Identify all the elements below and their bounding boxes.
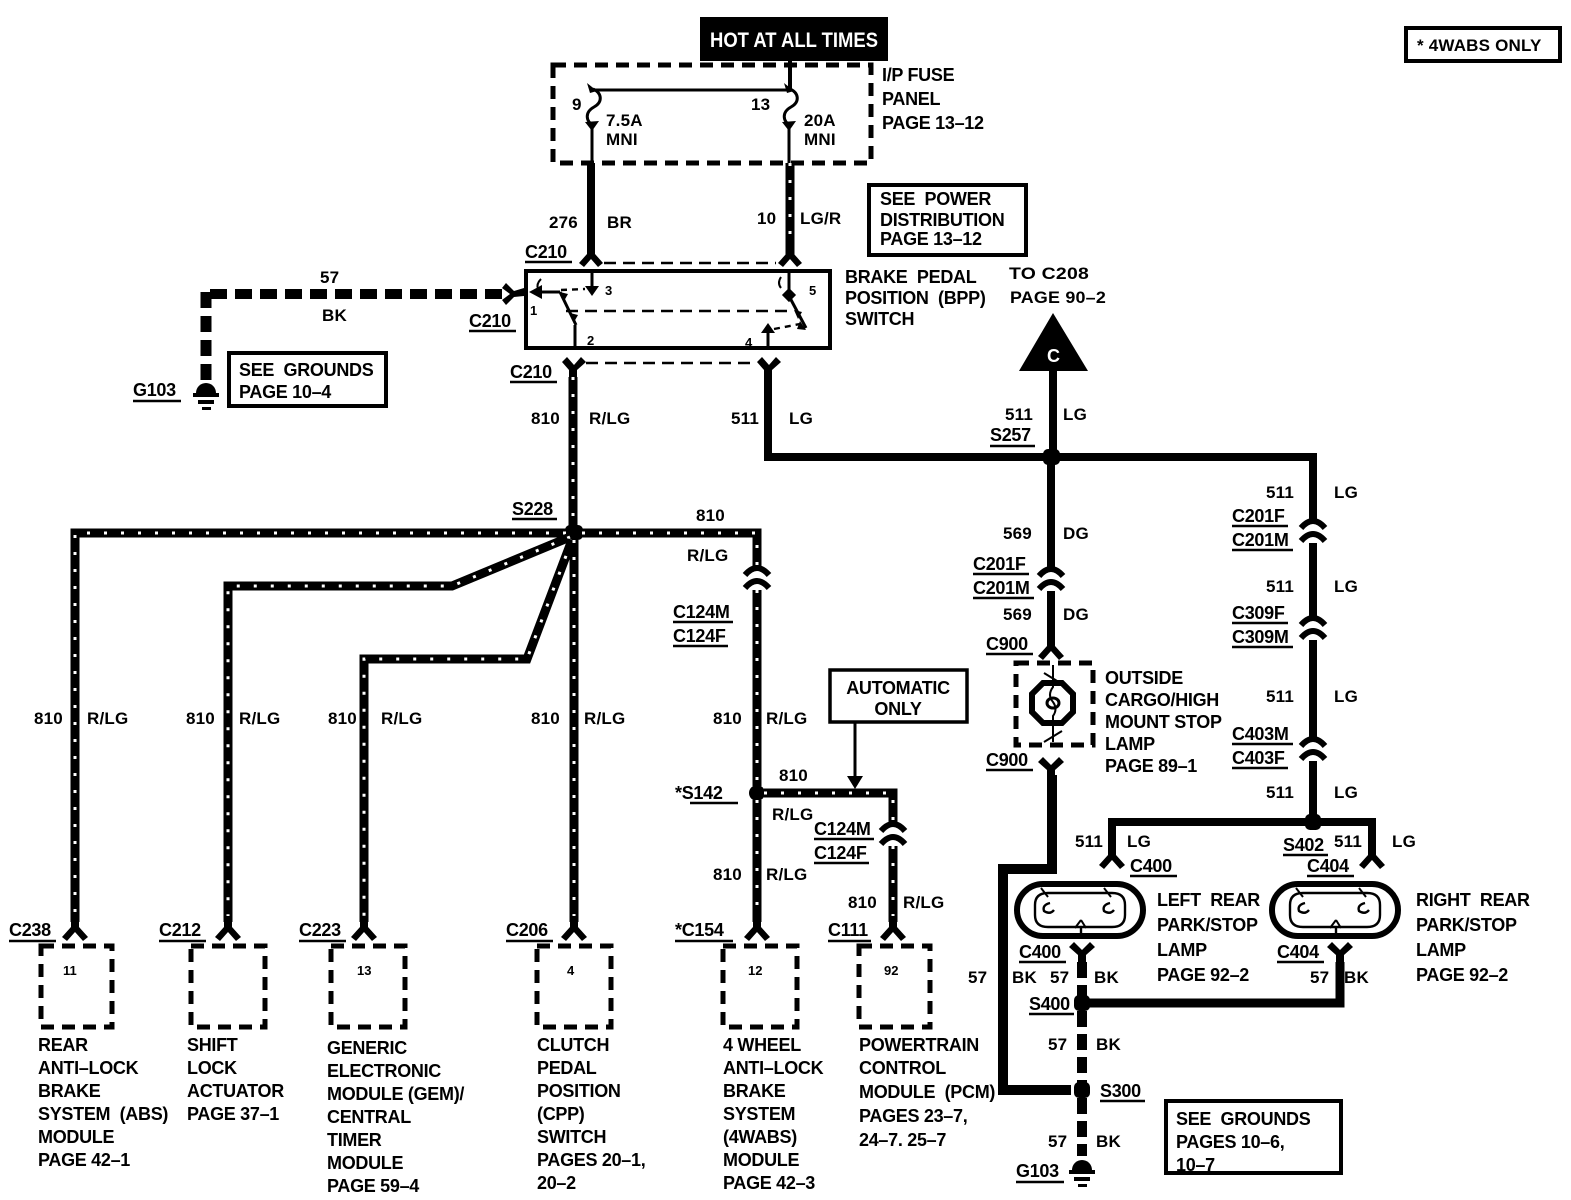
svg-text:PAGE 10–4: PAGE 10–4	[239, 382, 331, 402]
svg-text:MODULE (PCM): MODULE (PCM)	[859, 1082, 995, 1102]
connector C154	[675, 916, 797, 1027]
svg-text:MODULE (GEM)/: MODULE (GEM)/	[327, 1084, 464, 1104]
svg-text:SWITCH: SWITCH	[537, 1127, 606, 1147]
svg-text:511: 511	[1005, 405, 1033, 424]
svg-text:G103: G103	[133, 380, 176, 400]
svg-text:20A: 20A	[804, 111, 836, 130]
svg-text:MOUNT STOP: MOUNT STOP	[1105, 712, 1222, 732]
connector C400 bottom	[1019, 942, 1095, 962]
svg-text:810: 810	[531, 709, 560, 728]
svg-text:810: 810	[713, 709, 742, 728]
svg-text:810: 810	[848, 893, 877, 912]
connector C210 label bottom	[510, 362, 557, 382]
wire 57 BK S400 to S300	[1048, 1011, 1121, 1084]
svg-text:C201F: C201F	[973, 554, 1026, 574]
svg-text:LG: LG	[1334, 483, 1358, 502]
svg-text:569: 569	[1003, 524, 1032, 543]
ground G103 left	[133, 380, 219, 410]
I/P fuse panel label	[882, 65, 984, 133]
connector C124M/C124F upper	[673, 568, 769, 646]
svg-text:R/LG: R/LG	[687, 546, 728, 565]
module text GEM	[327, 1038, 464, 1196]
svg-text:810: 810	[34, 709, 63, 728]
connector C309F/C309M	[1232, 603, 1325, 647]
splice S228	[512, 499, 583, 540]
BPP contact 5	[789, 296, 806, 330]
svg-text:92: 92	[884, 963, 898, 978]
svg-text:57: 57	[1048, 1132, 1067, 1151]
splice S257	[990, 425, 1060, 465]
svg-text:PEDAL: PEDAL	[537, 1058, 597, 1078]
splice S400	[1029, 994, 1090, 1014]
svg-text:C201M: C201M	[973, 578, 1030, 598]
svg-text:57: 57	[1050, 968, 1069, 987]
svg-text:RIGHT REAR: RIGHT REAR	[1416, 890, 1530, 910]
connector C210 pin1 half-arrow left	[502, 283, 524, 305]
svg-text:REAR: REAR	[38, 1035, 88, 1055]
svg-text:R/LG: R/LG	[584, 709, 625, 728]
svg-text:R/LG: R/LG	[87, 709, 128, 728]
module text shift lock actuator	[187, 1035, 284, 1124]
connector C900 top	[986, 634, 1064, 660]
svg-text:C403F: C403F	[1232, 748, 1285, 768]
svg-text:(4WABS): (4WABS)	[723, 1127, 797, 1147]
wire 57 BK right lamp to S400	[1082, 962, 1340, 1003]
svg-text:R/LG: R/LG	[589, 409, 630, 428]
connector C210 label top	[525, 242, 572, 262]
fuse F13 20A MNI	[751, 83, 836, 163]
labels 57 BK row	[968, 968, 1369, 987]
svg-text:24–7. 25–7: 24–7. 25–7	[859, 1130, 946, 1150]
svg-text:TIMER: TIMER	[327, 1130, 382, 1150]
svg-text:C404: C404	[1277, 942, 1319, 962]
svg-text:4: 4	[567, 963, 575, 978]
svg-text:57: 57	[1310, 968, 1329, 987]
wire 276 BR	[549, 163, 632, 258]
see grounds page 10-4 box	[229, 353, 386, 406]
svg-text:4: 4	[745, 335, 753, 350]
svg-text:PAGES 10–6,: PAGES 10–6,	[1176, 1132, 1284, 1152]
svg-text:PARK/STOP: PARK/STOP	[1157, 915, 1258, 935]
svg-text:SEE POWER: SEE POWER	[880, 189, 991, 209]
wire 810 branch right to C124	[582, 506, 757, 566]
connector C210 pin3 half-arrow	[579, 240, 603, 267]
svg-text:C111: C111	[828, 920, 868, 940]
svg-text:57: 57	[1048, 1035, 1067, 1054]
svg-text:LG: LG	[1063, 405, 1087, 424]
wire 57 BK left lamp to S400	[1077, 962, 1087, 1000]
wire 511 to S257	[764, 453, 1317, 461]
svg-text:DG: DG	[1063, 605, 1089, 624]
wire 511 LG from BPP pin4	[731, 377, 813, 461]
svg-text:G103: G103	[1016, 1161, 1059, 1181]
svg-text:S300: S300	[1100, 1081, 1141, 1101]
svg-text:C400: C400	[1019, 942, 1061, 962]
svg-text:C212: C212	[159, 920, 201, 940]
svg-text:LAMP: LAMP	[1416, 940, 1466, 960]
wire fuse bus	[595, 89, 790, 92]
splice S142	[675, 783, 765, 803]
wire drop to C404	[1307, 818, 1385, 876]
connector C201F/C201M left	[973, 554, 1063, 598]
svg-text:C223: C223	[299, 920, 341, 940]
to C208 triangle	[1005, 264, 1106, 457]
brake pedal position switch box	[526, 271, 830, 348]
svg-text:C124F: C124F	[673, 626, 726, 646]
ground G103 bottom	[1016, 1160, 1095, 1187]
svg-text:ONLY: ONLY	[874, 699, 921, 719]
svg-text:PAGE 42–3: PAGE 42–3	[723, 1173, 815, 1193]
connector C403M/C403F	[1232, 724, 1325, 768]
svg-text:LG: LG	[1334, 783, 1358, 802]
svg-text:C124M: C124M	[814, 819, 871, 839]
connector C210 label left	[469, 311, 516, 331]
svg-text:MNI: MNI	[804, 130, 836, 149]
automatic only box	[830, 670, 967, 789]
svg-text:PAGE 89–1: PAGE 89–1	[1105, 756, 1197, 776]
svg-text:511: 511	[731, 409, 759, 428]
BPP dashed actuator link	[566, 310, 788, 313]
svg-text:13: 13	[357, 963, 371, 978]
wire 57 C900 to S300	[1003, 775, 1071, 1090]
svg-text:R/LG: R/LG	[903, 893, 944, 912]
svg-text:569: 569	[1003, 605, 1032, 624]
module text PCM	[859, 1035, 995, 1150]
connector C210 pin5 half-arrow	[778, 240, 802, 267]
module text 4WABS	[723, 1035, 824, 1193]
svg-text:C238: C238	[9, 920, 51, 940]
svg-text:DISTRIBUTION: DISTRIBUTION	[880, 210, 1004, 230]
svg-text:ANTI–LOCK: ANTI–LOCK	[38, 1058, 139, 1078]
svg-text:C124M: C124M	[673, 602, 730, 622]
svg-text:POWERTRAIN: POWERTRAIN	[859, 1035, 979, 1055]
svg-text:S400: S400	[1029, 994, 1070, 1014]
connector C201F/C201M right	[1232, 506, 1325, 550]
svg-text:PARK/STOP: PARK/STOP	[1416, 915, 1517, 935]
svg-text:BR: BR	[607, 213, 632, 232]
svg-text:PAGE 13–12: PAGE 13–12	[880, 229, 982, 249]
wire 810 branch to C223	[328, 540, 572, 922]
connector C212	[159, 916, 265, 1027]
svg-text:C400: C400	[1130, 856, 1172, 876]
svg-text:PAGE 92–2: PAGE 92–2	[1416, 965, 1508, 985]
svg-text:(CPP): (CPP)	[537, 1104, 585, 1124]
svg-text:7.5A: 7.5A	[606, 111, 643, 130]
svg-text:C: C	[1047, 346, 1060, 366]
connector C900 bottom	[986, 750, 1064, 777]
wire 569 DG upper	[1003, 461, 1089, 567]
svg-text:PAGE 59–4: PAGE 59–4	[327, 1176, 419, 1196]
svg-text:2: 2	[587, 333, 594, 348]
svg-text:I/P FUSE: I/P FUSE	[882, 65, 955, 85]
wire feed from hot bus	[788, 59, 792, 90]
svg-text:PAGES 20–1,: PAGES 20–1,	[537, 1150, 645, 1170]
svg-text:LG: LG	[1392, 832, 1416, 851]
wire 511 right column seg4	[1266, 761, 1358, 822]
svg-text:MNI: MNI	[606, 130, 638, 149]
svg-text:1: 1	[530, 303, 537, 318]
connector C210 pin4 Y	[757, 357, 781, 377]
wire 10 LG/R	[757, 163, 841, 258]
BPP pin 1	[529, 279, 560, 318]
hot at all times banner	[700, 17, 888, 61]
svg-text:4 WHEEL: 4 WHEEL	[723, 1035, 801, 1055]
svg-text:CONTROL: CONTROL	[859, 1058, 946, 1078]
connector C210 dashed link bottom	[586, 362, 756, 365]
wire 57 BK dashed to G103	[203, 268, 502, 380]
svg-text:SEE GROUNDS: SEE GROUNDS	[1176, 1109, 1311, 1129]
svg-text:LG: LG	[1127, 832, 1151, 851]
wire 810 R/LG from BPP pin2 to S228	[531, 377, 630, 530]
svg-text:CARGO/HIGH: CARGO/HIGH	[1105, 690, 1219, 710]
wire 57 BK S300 to G103	[1048, 1098, 1121, 1156]
svg-text:MODULE: MODULE	[327, 1153, 403, 1173]
outside cargo lamp label	[1105, 668, 1222, 776]
svg-text:9: 9	[572, 95, 582, 114]
svg-text:C404: C404	[1307, 856, 1349, 876]
svg-text:10–7: 10–7	[1176, 1155, 1215, 1175]
connector C238	[9, 916, 112, 1027]
svg-text:C210: C210	[525, 242, 567, 262]
svg-text:BRAKE: BRAKE	[723, 1081, 786, 1101]
svg-text:SWITCH: SWITCH	[845, 309, 914, 329]
svg-text:511: 511	[1266, 783, 1294, 802]
svg-text:BK: BK	[1094, 968, 1119, 987]
svg-text:MODULE: MODULE	[38, 1127, 114, 1147]
svg-text:R/LG: R/LG	[766, 865, 807, 884]
svg-text:SYSTEM: SYSTEM	[723, 1104, 795, 1124]
svg-text:BK: BK	[1344, 968, 1369, 987]
svg-text:DG: DG	[1063, 524, 1089, 543]
svg-text:276: 276	[549, 213, 578, 232]
svg-text:GENERIC: GENERIC	[327, 1038, 407, 1058]
svg-text:810: 810	[713, 865, 742, 884]
svg-text:MODULE: MODULE	[723, 1150, 799, 1170]
svg-text:CENTRAL: CENTRAL	[327, 1107, 411, 1127]
svg-text:C900: C900	[986, 750, 1028, 770]
svg-text:511: 511	[1266, 687, 1294, 706]
svg-text:3: 3	[605, 283, 612, 298]
svg-text:5: 5	[809, 283, 816, 298]
svg-text:SHIFT: SHIFT	[187, 1035, 238, 1055]
svg-text:10: 10	[757, 209, 776, 228]
svg-text:810: 810	[779, 766, 808, 785]
wire 511 right column seg1	[1266, 453, 1358, 519]
connector C124M/C124F lower	[814, 819, 905, 863]
svg-text:S257: S257	[990, 425, 1031, 445]
svg-text:BK: BK	[1012, 968, 1037, 987]
svg-text:57: 57	[968, 968, 987, 987]
svg-text:PAGE 42–1: PAGE 42–1	[38, 1150, 130, 1170]
svg-text:SEE GROUNDS: SEE GROUNDS	[239, 360, 374, 380]
connector C210 pin2 Y	[562, 357, 586, 377]
svg-text:810: 810	[186, 709, 215, 728]
wire 810 C124 to C111	[848, 846, 944, 922]
svg-text:S402: S402	[1283, 835, 1324, 855]
svg-text:PANEL: PANEL	[882, 89, 940, 109]
svg-text:11: 11	[63, 963, 77, 978]
see grounds pages 10-6 box	[1166, 1101, 1341, 1175]
wire 810 branch to C238	[34, 533, 566, 922]
connector C210 dashed link top	[604, 262, 776, 265]
svg-text:SYSTEM (ABS): SYSTEM (ABS)	[38, 1104, 168, 1124]
svg-text:R/LG: R/LG	[381, 709, 422, 728]
svg-text:TO C208: TO C208	[1009, 264, 1089, 283]
left lamp label	[1157, 890, 1260, 985]
see power distribution box	[869, 185, 1026, 255]
svg-text:POSITION: POSITION	[537, 1081, 621, 1101]
svg-text:511: 511	[1266, 483, 1294, 502]
svg-text:57: 57	[320, 268, 339, 287]
svg-text:LEFT REAR: LEFT REAR	[1157, 890, 1260, 910]
svg-text:ELECTRONIC: ELECTRONIC	[327, 1061, 441, 1081]
BPP contact 1-2	[560, 292, 594, 348]
BPP pin 3	[561, 272, 612, 298]
svg-text:LG: LG	[789, 409, 813, 428]
svg-text:PAGE 90–2: PAGE 90–2	[1010, 288, 1106, 307]
svg-text:810: 810	[328, 709, 357, 728]
svg-text:BRAKE: BRAKE	[38, 1081, 101, 1101]
svg-text:810: 810	[531, 409, 560, 428]
svg-text:C124F: C124F	[814, 843, 867, 863]
svg-text:OUTSIDE: OUTSIDE	[1105, 668, 1183, 688]
wire 511 right column seg2	[1266, 543, 1358, 616]
svg-text:C309M: C309M	[1232, 627, 1289, 647]
splice S300	[1074, 1081, 1145, 1101]
wire 569 DG lower	[1003, 591, 1089, 644]
svg-text:R/LG: R/LG	[239, 709, 280, 728]
svg-text:CLUTCH: CLUTCH	[537, 1035, 609, 1055]
svg-text:C309F: C309F	[1232, 603, 1285, 623]
svg-text:C403M: C403M	[1232, 724, 1289, 744]
svg-text:PAGE 37–1: PAGE 37–1	[187, 1104, 279, 1124]
svg-text:LG: LG	[1334, 687, 1358, 706]
wire 810 S142 right branch	[764, 766, 893, 824]
I/P fuse panel dashed box	[553, 65, 871, 163]
BPP pin 5	[779, 272, 816, 302]
connector C206	[506, 916, 611, 1027]
svg-text:*S142: *S142	[675, 783, 723, 803]
wire 810 S142 to C154	[713, 800, 807, 922]
left rear park/stop lamp	[1017, 884, 1143, 936]
svg-text:LG: LG	[1334, 577, 1358, 596]
outside cargo lamp box	[1016, 663, 1093, 745]
right rear park/stop lamp	[1272, 884, 1398, 936]
svg-text:C900: C900	[986, 634, 1028, 654]
svg-text:ANTI–LOCK: ANTI–LOCK	[723, 1058, 824, 1078]
BPP pin 4	[745, 323, 800, 350]
svg-text:ACTUATOR: ACTUATOR	[187, 1081, 284, 1101]
svg-text:20–2: 20–2	[537, 1173, 576, 1193]
wire 511 right column seg3	[1266, 640, 1358, 737]
svg-text:BK: BK	[1096, 1132, 1121, 1151]
svg-text:PAGE 13–12: PAGE 13–12	[882, 113, 984, 133]
svg-text:12: 12	[748, 963, 762, 978]
module text CPP switch	[537, 1035, 645, 1193]
connector C111	[828, 916, 930, 1027]
svg-text:13: 13	[751, 95, 770, 114]
connector C223	[299, 916, 405, 1027]
svg-text:C206: C206	[506, 920, 548, 940]
wire 810 branch to C212	[186, 537, 570, 922]
svg-text:* 4WABS ONLY: * 4WABS ONLY	[1417, 36, 1542, 55]
svg-text:511: 511	[1075, 832, 1103, 851]
svg-text:BRAKE PEDAL: BRAKE PEDAL	[845, 267, 977, 287]
svg-text:*C154: *C154	[675, 920, 724, 940]
svg-text:PAGES 23–7,: PAGES 23–7,	[859, 1106, 967, 1126]
svg-text:C210: C210	[510, 362, 552, 382]
module text rear ABS	[38, 1035, 168, 1170]
svg-text:R/LG: R/LG	[772, 805, 813, 824]
svg-text:BK: BK	[322, 306, 347, 325]
splice S402 junction	[1075, 814, 1416, 855]
svg-text:511: 511	[1266, 577, 1294, 596]
svg-text:PAGE 92–2: PAGE 92–2	[1157, 965, 1249, 985]
svg-text:LAMP: LAMP	[1105, 734, 1155, 754]
svg-text:511: 511	[1334, 832, 1362, 851]
connector C404 bottom	[1277, 942, 1353, 962]
right lamp label	[1416, 890, 1530, 985]
svg-text:810: 810	[696, 506, 725, 525]
svg-text:HOT AT ALL TIMES: HOT AT ALL TIMES	[710, 29, 878, 52]
wire drop to C400	[1099, 818, 1177, 876]
svg-text:LOCK: LOCK	[187, 1058, 237, 1078]
wire 810 branch to C206	[531, 540, 625, 922]
note box * 4WABS ONLY	[1406, 28, 1560, 61]
svg-text:BK: BK	[1096, 1035, 1121, 1054]
svg-text:AUTOMATIC: AUTOMATIC	[846, 678, 950, 698]
svg-text:S228: S228	[512, 499, 553, 519]
wire 810 C124 to S142	[713, 590, 807, 786]
svg-text:C201M: C201M	[1232, 530, 1289, 550]
svg-text:R/LG: R/LG	[766, 709, 807, 728]
svg-text:LG/R: LG/R	[800, 209, 841, 228]
svg-text:C201F: C201F	[1232, 506, 1285, 526]
svg-text:LAMP: LAMP	[1157, 940, 1207, 960]
BPP switch label	[845, 267, 986, 329]
fuse F9 7.5A MNI	[572, 83, 643, 163]
svg-text:POSITION (BPP): POSITION (BPP)	[845, 288, 986, 308]
svg-text:C210: C210	[469, 311, 511, 331]
